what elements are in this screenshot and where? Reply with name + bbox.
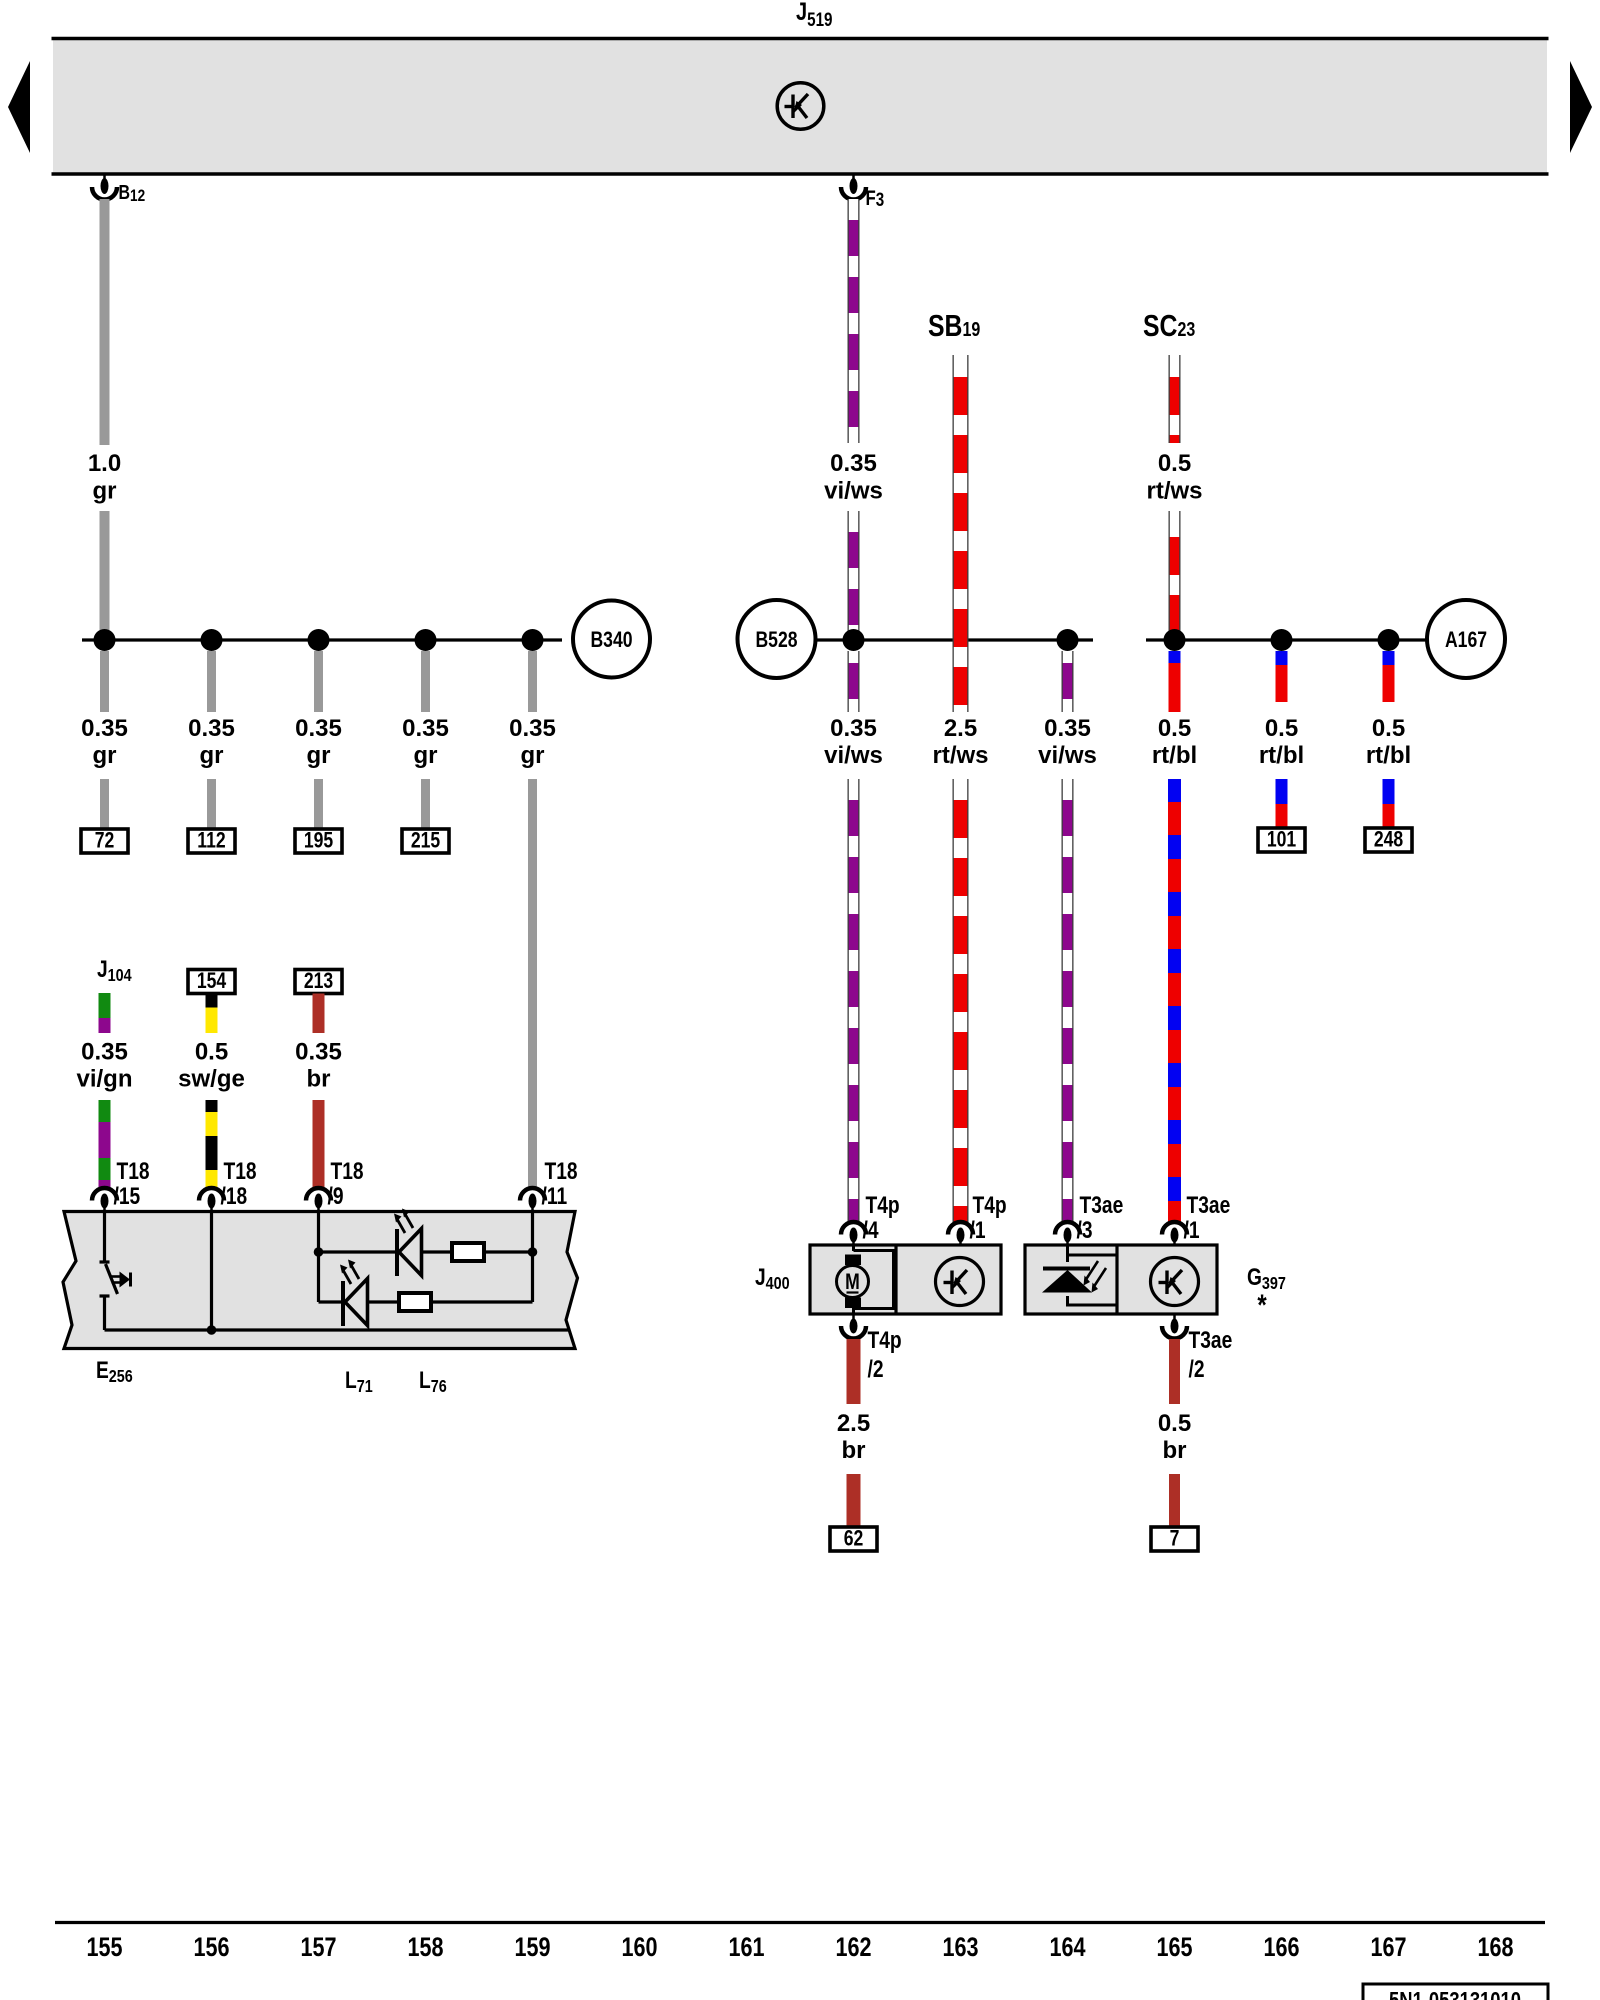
junction dot track 165 — [1164, 629, 1186, 651]
terminal B12 on J519 — [103, 175, 106, 181]
switch E256 pin wire — [103, 1211, 106, 1262]
svg-text:0.35: 0.35 — [830, 450, 877, 477]
svg-text:0.35: 0.35 — [295, 715, 342, 742]
svg-text:gr: gr — [521, 742, 545, 769]
wire vi/gn to T18/15 — [99, 1100, 111, 1188]
svg-text:1.0: 1.0 — [88, 450, 121, 477]
connector T18/11 — [520, 1188, 545, 1201]
switch E256 lower wire — [103, 1296, 106, 1330]
LED L71 emission arrows — [397, 1214, 413, 1233]
destination box 195 — [295, 829, 342, 853]
svg-text:*: * — [1257, 1287, 1267, 1321]
motor symbol M in J400 — [837, 1266, 869, 1298]
svg-text:/9: /9 — [328, 1182, 344, 1210]
LED L76 — [341, 1281, 345, 1326]
wire 2.5 br from T4p/2 — [847, 1339, 861, 1404]
svg-text:rt/ws: rt/ws — [1146, 478, 1202, 505]
svg-text:/3: /3 — [1077, 1216, 1093, 1244]
svg-text:168: 168 — [1477, 1933, 1513, 1963]
svg-text:248: 248 — [1374, 828, 1403, 852]
resistor of L71 — [452, 1243, 484, 1261]
wire stub vi/gn from J104 — [99, 993, 111, 1033]
svg-text:0.5: 0.5 — [195, 1039, 228, 1066]
junction dot track 162 — [843, 629, 865, 651]
wire resistor L76 to right leg — [431, 1300, 533, 1303]
photodiode light arrows — [1085, 1261, 1106, 1288]
wire vi/ws to node B528 — [848, 511, 860, 640]
svg-text:vi/ws: vi/ws — [1038, 742, 1097, 769]
connector T4p/2 — [852, 1314, 855, 1319]
svg-text:0.35: 0.35 — [81, 1039, 128, 1066]
wire 0.5 br from T3ae/2 — [1169, 1339, 1180, 1404]
svg-text:vi/ws: vi/ws — [824, 742, 883, 769]
wire 0.35 gr drop track 158 — [421, 651, 430, 712]
svg-text:161: 161 — [728, 1933, 764, 1963]
svg-text:br: br — [842, 1437, 866, 1464]
wire 0.35 gr to box 112 — [207, 779, 216, 829]
wire resistor to T18/11 node — [484, 1250, 533, 1253]
svg-text:gr: gr — [93, 742, 117, 769]
wire 0.5 rt/bl below node track 166 — [1276, 651, 1288, 702]
drawing number box — [1363, 1984, 1548, 2000]
svg-text:155: 155 — [86, 1933, 122, 1963]
destination box 154 — [188, 970, 235, 994]
svg-text:2.5: 2.5 — [944, 715, 977, 742]
svg-text:/2: /2 — [1189, 1355, 1205, 1383]
svg-text:/15: /15 — [114, 1182, 141, 1210]
connector T3ae/2 — [1173, 1314, 1176, 1319]
svg-text:rt/bl: rt/bl — [1259, 742, 1304, 769]
LED L76 emission arrows — [343, 1265, 359, 1284]
wire rt/ws to node A167 — [1169, 511, 1181, 640]
wire vi/ws long run to T4p/4 — [848, 779, 860, 1222]
junction dot B340 track 158 — [415, 629, 437, 651]
destination box 215 — [402, 829, 449, 853]
svg-text:112: 112 — [197, 829, 225, 853]
svg-text:72: 72 — [95, 829, 115, 853]
bus symbol in J400 — [936, 1258, 984, 1306]
svg-text:7: 7 — [1170, 1527, 1180, 1551]
destination box 213 — [295, 970, 342, 994]
svg-text:158: 158 — [407, 1933, 443, 1963]
svg-text:gr: gr — [93, 478, 117, 505]
svg-text:213: 213 — [304, 969, 333, 993]
svg-text:rt/bl: rt/bl — [1366, 742, 1411, 769]
wire stub sw/ge from box 154 — [206, 994, 218, 1034]
svg-text:162: 162 — [835, 1933, 871, 1963]
wire T18/11 pin down to lower branch — [531, 1211, 534, 1302]
svg-text:T18: T18 — [117, 1157, 150, 1185]
svg-text:/11: /11 — [542, 1182, 568, 1210]
wire 1.0 gr from B12 — [100, 199, 110, 445]
motor brushes in J400 — [845, 1255, 861, 1266]
svg-text:rt/ws: rt/ws — [932, 742, 988, 769]
svg-text:164: 164 — [1049, 1933, 1085, 1963]
node line B528 — [816, 638, 1093, 641]
svg-text:0.35: 0.35 — [295, 1039, 342, 1066]
wire 0.35 vi/ws below node track 164 — [1062, 651, 1074, 712]
connector T18/18 — [199, 1188, 224, 1201]
svg-text:br: br — [1163, 1437, 1187, 1464]
wire 0.35 gr drop track 155 — [100, 651, 109, 712]
junction dot B340 track 155 — [94, 629, 116, 651]
svg-text:160: 160 — [621, 1933, 657, 1963]
svg-text:0.5: 0.5 — [1158, 715, 1191, 742]
svg-text:0.5: 0.5 — [1158, 1410, 1191, 1437]
svg-text:B340: B340 — [590, 628, 632, 652]
destination box 72 — [81, 829, 128, 853]
wire br to box 7 — [1169, 1474, 1180, 1527]
svg-text:T18: T18 — [224, 1157, 257, 1185]
svg-text:M: M — [845, 1270, 860, 1294]
destination box 101 — [1258, 828, 1305, 852]
connector T3ae/3 — [1055, 1222, 1080, 1235]
node circle B528 — [738, 600, 816, 678]
wire 0.35 gr to box 72 — [100, 779, 109, 829]
component box J400 — [810, 1245, 1001, 1314]
motor bracket in J400 — [854, 1251, 894, 1309]
wire 2.5 rt/ws from SB19 — [953, 355, 969, 712]
svg-text:5N1-053131010: 5N1-053131010 — [1389, 1988, 1521, 2000]
svg-text:62: 62 — [844, 1527, 864, 1551]
photodiode in G397 — [1043, 1267, 1090, 1271]
svg-text:101: 101 — [1267, 828, 1296, 852]
junction dot track 166 — [1271, 629, 1293, 651]
wire 1.0 gr to node B340 — [100, 511, 110, 640]
svg-text:0.5: 0.5 — [1265, 715, 1298, 742]
LED L71 — [395, 1229, 399, 1276]
node circle B340 — [573, 601, 650, 678]
wire 0.35 vi/ws from F3 — [848, 199, 860, 443]
wire rt/bl long run to T3ae/1 — [1168, 779, 1181, 1222]
wire 0.35 gr to box 195 — [314, 779, 323, 829]
wire to LED L71 — [319, 1250, 398, 1253]
switch E256 lever — [106, 1264, 118, 1294]
junction dot LED branch split — [314, 1247, 324, 1257]
terminal F3 on J519 — [852, 175, 855, 181]
svg-text:0.35: 0.35 — [81, 715, 128, 742]
wire lower branch to LED L76 — [319, 1300, 344, 1303]
svg-text:T4p: T4p — [866, 1191, 900, 1219]
bottom track rule — [55, 1921, 1545, 1924]
wire stub 0.35 br from box 213 — [313, 994, 325, 1034]
svg-text:T4p: T4p — [973, 1191, 1007, 1219]
wire rt/bl to box 248 — [1383, 779, 1395, 828]
svg-text:gr: gr — [307, 742, 331, 769]
pin stem J400 motor to bottom pin — [852, 1308, 855, 1314]
destination box 7 — [1151, 1527, 1198, 1551]
svg-text:sw/ge: sw/ge — [178, 1066, 245, 1093]
svg-text:B528: B528 — [755, 628, 797, 652]
svg-text:0.35: 0.35 — [402, 715, 449, 742]
svg-text:gr: gr — [200, 742, 224, 769]
svg-text:195: 195 — [304, 829, 333, 853]
svg-text:T3ae: T3ae — [1189, 1326, 1233, 1354]
left continuation arrow — [8, 61, 30, 153]
junction dot track 167 — [1378, 629, 1400, 651]
connector T4p/1 — [948, 1222, 973, 1235]
svg-text:0.35: 0.35 — [509, 715, 556, 742]
connector T18/15 — [92, 1188, 117, 1201]
svg-text:T3ae: T3ae — [1187, 1191, 1231, 1219]
svg-text:vi/ws: vi/ws — [824, 478, 883, 505]
svg-text:/1: /1 — [1184, 1216, 1200, 1244]
svg-text:0.35: 0.35 — [188, 715, 235, 742]
wire 0.35 gr drop track 159 — [528, 651, 537, 712]
right continuation arrow — [1570, 61, 1592, 153]
wire 0.35 gr to box 215 — [421, 779, 430, 829]
wire T18/9 pin into LED branches — [317, 1211, 320, 1302]
svg-text:0.5: 0.5 — [1158, 450, 1191, 477]
switch E256 contact ticks — [100, 1260, 110, 1263]
connector T18/9 — [306, 1188, 331, 1201]
svg-text:167: 167 — [1370, 1933, 1406, 1963]
junction dot B340 track 156 — [201, 629, 223, 651]
node circle A167 — [1427, 600, 1505, 678]
node line B340 — [82, 638, 562, 641]
svg-text:2.5: 2.5 — [837, 1410, 870, 1437]
wire LED L76 to resistor — [368, 1300, 400, 1303]
wire 0.5 rt/bl below node track 165 — [1169, 651, 1181, 712]
wire 0.35 gr long run to T18/11 — [528, 779, 537, 1188]
svg-text:T4p: T4p — [868, 1326, 902, 1354]
switch E256 actuation arrow — [112, 1275, 120, 1278]
svg-text:br: br — [307, 1066, 331, 1093]
svg-text:/4: /4 — [863, 1216, 879, 1244]
node line A167 segment — [1146, 638, 1427, 641]
wire br to box 62 — [847, 1474, 861, 1527]
svg-text:0.5: 0.5 — [1372, 715, 1405, 742]
control unit J519 bus bar — [53, 37, 1547, 174]
svg-text:154: 154 — [197, 969, 226, 993]
junction dot B340 track 157 — [308, 629, 330, 651]
destination box 112 — [188, 829, 235, 853]
switch module box (E256 / L71 / L76) — [63, 1212, 578, 1349]
internal ground bus wire — [105, 1328, 571, 1331]
wire 0.35 vi/ws below node track 162 — [848, 651, 860, 712]
svg-text:0.35: 0.35 — [830, 715, 877, 742]
destination box 62 — [830, 1527, 877, 1551]
destination box 248 — [1365, 828, 1412, 852]
pin stem into J400 motor cell — [852, 1245, 855, 1251]
svg-text:165: 165 — [1156, 1933, 1192, 1963]
svg-text:215: 215 — [411, 829, 440, 853]
svg-text:T3ae: T3ae — [1080, 1191, 1124, 1219]
svg-text:T18: T18 — [331, 1157, 364, 1185]
connector T4p/4 — [841, 1222, 866, 1235]
svg-text:A167: A167 — [1445, 628, 1487, 652]
svg-text:F3: F3 — [866, 187, 885, 210]
wire sw/ge to T18/18 — [206, 1100, 218, 1188]
G397 cell divider — [1115, 1245, 1118, 1314]
svg-text:156: 156 — [193, 1933, 229, 1963]
svg-text:0.35: 0.35 — [1044, 715, 1091, 742]
photodiode bracket in G397 — [1068, 1255, 1116, 1262]
bus symbol U in J519 — [777, 83, 824, 130]
svg-text:/2: /2 — [868, 1355, 884, 1383]
svg-text:gr: gr — [414, 742, 438, 769]
wire vi/ws long run to T3ae/3 — [1062, 779, 1074, 1222]
svg-text:rt/bl: rt/bl — [1152, 742, 1197, 769]
junction dot at T18/11 leg — [528, 1247, 538, 1257]
wire 0.5 rt/bl below node track 167 — [1383, 651, 1395, 702]
wire 0.35 gr drop track 157 — [314, 651, 323, 712]
wire rt/ws long run to T4p/1 — [953, 779, 969, 1222]
wire T18/18 pin to bus — [210, 1211, 213, 1330]
junction dot B340 track 159 — [522, 629, 544, 651]
svg-text:159: 159 — [514, 1933, 550, 1963]
wire br to T18/9 — [313, 1100, 325, 1188]
wire rt/bl to box 101 — [1276, 779, 1288, 828]
pin stem into G397 sensor cell — [1066, 1245, 1069, 1256]
junction dot track 164 — [1057, 629, 1079, 651]
svg-text:/18: /18 — [221, 1182, 248, 1210]
svg-text:163: 163 — [942, 1933, 978, 1963]
svg-text:166: 166 — [1263, 1933, 1299, 1963]
bus symbol in G397 — [1151, 1258, 1199, 1306]
svg-text:/1: /1 — [970, 1216, 986, 1244]
component box G397 — [1025, 1245, 1217, 1314]
connector T3ae/1 — [1162, 1222, 1187, 1235]
wire 0.35 gr drop track 156 — [207, 651, 216, 712]
wire LED L71 to resistor — [422, 1250, 453, 1253]
wire 0.5 rt/ws from SC23 — [1169, 355, 1181, 443]
svg-text:T18: T18 — [545, 1157, 578, 1185]
junction dot T18/18 to bus — [207, 1325, 217, 1335]
J400 cell divider — [894, 1245, 897, 1314]
svg-text:157: 157 — [300, 1933, 336, 1963]
svg-text:vi/gn: vi/gn — [76, 1066, 132, 1093]
resistor of L76 — [399, 1293, 431, 1311]
